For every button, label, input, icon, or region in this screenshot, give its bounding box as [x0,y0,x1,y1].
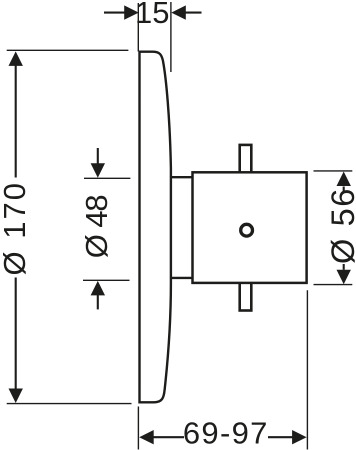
dim 69-97: left extension line [137,407,139,450]
dim Ø56: top arrow [337,172,351,187]
dim Ø170: bottom arrow [9,389,23,404]
svg-text:Ø 48: Ø 48 [79,195,114,258]
dim 15: left extension line [137,3,139,52]
dim Ø56: upper stub [343,187,345,193]
handle square body [193,172,307,283]
svg-text:15: 15 [135,0,169,30]
dim Ø170: bottom extension line [7,403,132,405]
dim 15: left tail [104,12,125,14]
dim Ø170: top extension line [7,49,129,51]
svg-text:Ø 170: Ø 170 [0,181,32,275]
dim 15: right arrow [171,5,186,19]
handle top tab [240,145,252,173]
dim 69-97: right arrow [292,430,307,444]
dim 69-97: left segment [154,436,185,438]
sleeve bracket top edge [171,176,193,178]
dim Ø48: top arrow [91,163,105,178]
dim Ø56: bottom arrow [337,270,351,285]
dim 69-97: right segment [268,436,293,438]
svg-text:Ø 56: Ø 56 [325,187,356,264]
dim 69-97: left arrow [139,430,154,444]
handle center screw circle [241,224,253,236]
handle bottom tab [240,283,252,311]
dim Ø170: dimension line upper segment [15,65,17,178]
dim 15: left arrow [124,5,139,19]
escutcheon plate (side view) [140,52,171,403]
dim 15: right extension line [170,2,172,72]
dim Ø48: bottom extension line [83,279,130,281]
dim Ø48: bottom arrow [91,281,105,296]
dim Ø56: lower stub [343,264,345,270]
dim Ø48: lower stub [97,295,99,309]
dim Ø170: top arrow [9,51,23,66]
dim Ø56: bottom extension line [314,284,353,286]
dim Ø170: dimension line lower segment [15,278,17,389]
dim 15: right tail [185,12,201,14]
svg-text:69-97: 69-97 [183,416,269,450]
dim Ø48: top extension line [84,177,130,179]
dim 69-97: right extension line [306,290,308,449]
sleeve bracket bottom edge [171,277,193,279]
dim Ø48: upper stub [97,148,99,164]
dim Ø56: top extension line [314,170,353,172]
